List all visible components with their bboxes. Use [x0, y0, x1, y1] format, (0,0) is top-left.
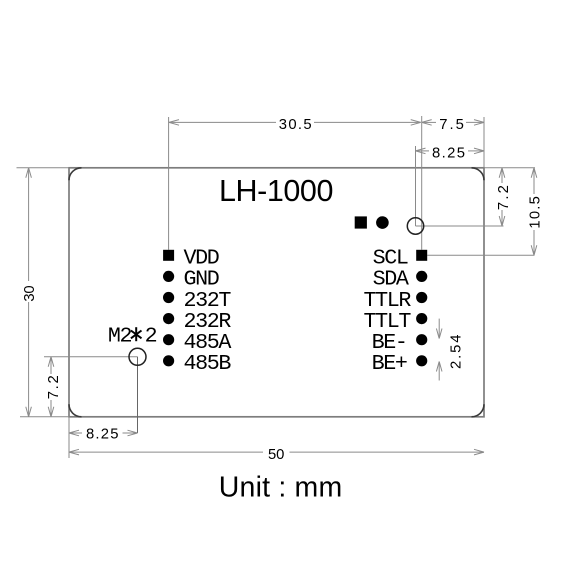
pin SCL square — [416, 250, 427, 261]
pin TTLR — [416, 292, 427, 303]
label M2*2 — [108, 324, 157, 349]
extension line: top hole to right — [416, 225, 504, 227]
pin SDA — [416, 271, 427, 282]
dimension 30 left — [22, 168, 38, 417]
svg-text:485B: 485B — [184, 351, 232, 376]
label BE+ — [372, 351, 407, 376]
pin BE+ — [416, 355, 427, 366]
extension line: bottom edge left — [20, 416, 69, 418]
extension line: top edge left — [17, 167, 70, 169]
label SDA — [373, 267, 409, 292]
extension line: left edge downward — [68, 417, 70, 458]
corner arc bottom-left — [69, 404, 82, 417]
dimension 8.25 upper right — [416, 146, 485, 162]
label 485B — [184, 351, 232, 376]
svg-text:M2: M2 — [108, 324, 132, 349]
label 485A — [184, 330, 232, 355]
svg-text:Unit : mm: Unit : mm — [219, 472, 343, 504]
extension line: M2 hole to left — [44, 356, 138, 358]
hole M2 — [129, 348, 146, 365]
board outline — [69, 168, 484, 417]
dimension 2.54 right pins — [436, 319, 464, 381]
dimension 50 bottom — [69, 447, 484, 463]
svg-text:LH-1000: LH-1000 — [219, 174, 334, 208]
svg-text:2.54: 2.54 — [449, 335, 465, 370]
pin VDD square — [163, 250, 174, 261]
corner arc bottom-right — [472, 404, 485, 417]
label GND — [184, 267, 219, 292]
dimension 7.2 lower left — [46, 357, 62, 417]
extension line: VDD column upward — [168, 117, 170, 250]
dimension 10.5 right — [528, 168, 544, 256]
extension line: right edge upward — [483, 117, 485, 168]
corner arc top-right — [472, 168, 485, 181]
svg-text:50: 50 — [268, 447, 284, 463]
extension line: SCL pin to right — [427, 254, 534, 256]
pin 485B — [163, 355, 174, 366]
label 232T — [184, 288, 232, 313]
pin 485A — [163, 334, 174, 345]
svg-text:BE+: BE+ — [372, 351, 407, 376]
extension line: top edge right — [484, 167, 535, 169]
corner arc top-left — [69, 168, 82, 181]
marker square mid — [355, 216, 367, 228]
extension line: M2 hole downward — [137, 357, 139, 433]
pin 232R — [163, 313, 174, 324]
label BE- — [372, 330, 407, 355]
dimension 8.25 bottom — [69, 427, 138, 443]
dimension 30.5 top — [169, 117, 421, 133]
marker dot mid — [376, 216, 389, 229]
dimension 7.2 right — [496, 168, 512, 226]
pin GND — [163, 271, 174, 282]
label TTLT — [364, 309, 412, 334]
svg-text:8.25: 8.25 — [432, 146, 465, 162]
label VDD — [184, 246, 219, 271]
hole top-right — [407, 218, 423, 234]
label TTLR — [364, 288, 412, 313]
svg-text:2: 2 — [145, 324, 157, 349]
svg-text:30.5: 30.5 — [279, 117, 312, 133]
svg-text:10.5: 10.5 — [528, 196, 544, 229]
svg-text:30: 30 — [22, 285, 38, 301]
svg-text:7.5: 7.5 — [439, 117, 464, 133]
label 232R — [184, 309, 232, 334]
svg-text:7.2: 7.2 — [496, 185, 512, 210]
svg-text:8.25: 8.25 — [86, 427, 119, 443]
svg-text:7.2: 7.2 — [46, 375, 62, 399]
pin TTLT — [416, 313, 427, 324]
title LH-1000 — [219, 174, 334, 208]
label SCL — [373, 246, 408, 271]
extension line: top hole upward — [415, 146, 417, 226]
label Unit : mm — [219, 472, 343, 504]
extension line: SCL column upward — [421, 116, 423, 250]
dimension 7.5 top — [422, 117, 484, 133]
pin BE- — [416, 334, 427, 345]
pin 232T — [163, 292, 174, 303]
